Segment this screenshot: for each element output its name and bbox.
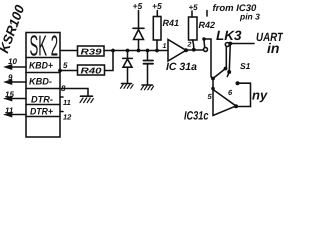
ground pin8: [80, 96, 93, 102]
label KSR100: [0, 2, 28, 55]
pin stub 12: [60, 111, 63, 113]
svg-text:+5: +5: [133, 1, 143, 11]
svg-text:ny: ny: [252, 88, 268, 103]
svg-text:DTR-: DTR-: [31, 95, 53, 106]
svg-text:15: 15: [5, 90, 14, 99]
svg-text:LK3: LK3: [216, 28, 242, 43]
ground C: [141, 85, 154, 90]
svg-text:S1: S1: [240, 61, 251, 71]
resistor R40: [78, 65, 105, 75]
svg-text:IC31c: IC31c: [184, 109, 209, 123]
wire IC31c output: [236, 106, 251, 108]
op-amp buffer IC31a: [168, 40, 186, 62]
junction dot IC31c input: [211, 87, 215, 91]
note from IC30 pin 3: [213, 3, 261, 22]
wire DTR+ left arrow: [7, 114, 26, 116]
link LK3 arm: [213, 69, 226, 79]
pin stub 11: [60, 96, 63, 98]
diode D2 to ground: [123, 51, 133, 84]
junction dot LK3 bottom: [211, 77, 215, 81]
capacitor C: [144, 51, 154, 85]
wire KBD- left arrow: [7, 81, 26, 83]
diode D1 to +5: [133, 11, 144, 51]
wire LK3 node to IC31c input: [212, 79, 214, 89]
junction dot R41: [155, 49, 159, 53]
svg-text:KBD+: KBD+: [29, 61, 53, 72]
wire SK2 to R39: [60, 50, 78, 52]
wire node A: [104, 50, 168, 52]
inverter IC31c: [213, 90, 236, 116]
svg-text:5: 5: [63, 61, 68, 70]
svg-text:9: 9: [8, 73, 13, 82]
svg-text:11: 11: [63, 98, 71, 107]
svg-text:1: 1: [163, 43, 167, 50]
svg-text:R39: R39: [81, 47, 102, 57]
wire KBD+ left arrow: [7, 66, 26, 68]
svg-text:in: in: [267, 40, 279, 56]
resistor R42: [189, 11, 198, 50]
svg-text:11: 11: [5, 106, 14, 115]
svg-text:10: 10: [8, 57, 17, 66]
resistor R41: [153, 11, 161, 51]
wire to UART in: [229, 43, 254, 45]
link LK3 left post: [204, 48, 208, 52]
switch S1: [228, 42, 232, 46]
svg-text:KBD-: KBD-: [29, 77, 52, 88]
link LK3 right post: [225, 43, 229, 47]
junction dot C: [146, 49, 150, 53]
leader tick from IC30: [206, 11, 208, 17]
wire DTR- left arrow: [7, 98, 26, 100]
svg-text:2: 2: [187, 42, 192, 49]
junction dot IC31c output: [234, 104, 238, 108]
connector SK2 body: [26, 33, 60, 138]
svg-text:+5: +5: [189, 3, 199, 12]
svg-text:R41: R41: [163, 18, 180, 28]
wire S1 to IC31c output: [238, 83, 251, 106]
junction dot R40/R39: [111, 49, 115, 53]
ground D2: [121, 84, 134, 89]
resistor R39: [78, 46, 105, 56]
junction dot IC31a output: [184, 48, 188, 52]
label UART in: [256, 30, 284, 56]
wire pin5 to R40: [60, 70, 78, 72]
svg-text:12: 12: [63, 113, 72, 122]
svg-text:R40: R40: [81, 66, 102, 76]
wire pin8 to ground: [60, 89, 88, 97]
junction dot D2: [126, 49, 130, 53]
svg-text:IC 31a: IC 31a: [166, 61, 197, 73]
svg-text:SK 2: SK 2: [30, 31, 59, 63]
wire R40 output riser: [105, 51, 114, 71]
wire IC31a output: [186, 49, 203, 51]
wire LK3 right post riser: [225, 47, 227, 69]
svg-text:pin 3: pin 3: [239, 12, 260, 22]
junction dot pin5: [58, 69, 62, 73]
svg-text:DTR+: DTR+: [30, 107, 53, 118]
junction dot D1: [137, 49, 141, 53]
svg-text:R42: R42: [199, 20, 216, 30]
connector SK2 row dividers: [26, 58, 60, 117]
junction dot R42: [192, 48, 196, 52]
svg-text:+5: +5: [152, 1, 162, 11]
wire LK3 jumper: [203, 41, 206, 48]
